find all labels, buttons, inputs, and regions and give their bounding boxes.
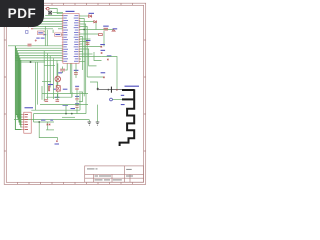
supply node VCC1 [112,28,117,31]
wire mid rails [14,86,98,140]
ground GND2 [96,122,100,125]
capacitor C1 [28,39,37,45]
wire top-left to IC [31,9,63,35]
ground GND1 [88,122,92,125]
capacitor C10 crosses [47,124,51,126]
junction mid node B [38,121,40,123]
component P1 pad [101,50,106,54]
LED D1 [89,13,95,18]
net label N1 [63,105,69,106]
component box B3 [55,33,62,37]
wire mid vertical drops from bus [20,51,72,110]
wire capacitor column links [77,90,83,114]
capacitor C2 [74,63,79,78]
resistor R9 bottom [55,141,60,145]
capacitor C3 [75,86,79,90]
capacitor C11 [75,96,79,100]
battery BT1 long plate [110,87,112,93]
resistor R1 [28,25,31,27]
net label row NL1 [36,38,44,39]
net label PB1 [43,34,46,35]
motor M1 terminal circle [110,98,113,101]
capacitor C9 below IC [58,63,67,76]
wire bus drop band to connector J3 [15,46,21,130]
capacitor C7 [45,100,49,102]
crystal X1 bowtie [48,11,51,14]
diode D2 [94,20,97,23]
capacitor C5 [100,44,105,48]
U1 right pin name column [74,15,79,62]
battery BT1 plus terminal [97,88,99,90]
net label GND row [41,120,53,121]
wire IC right fan [79,16,113,96]
resistor R6 [99,34,103,36]
component box B1 [26,29,34,34]
junction mid node C [71,113,73,115]
battery BT1 top lead [99,89,122,91]
title block [85,166,144,182]
capacitor C8 [55,97,60,102]
motor M2 circle [55,72,62,81]
resistor R7 [107,55,112,60]
wire left bus horizontals [8,46,63,61]
net label N2 [71,108,76,109]
PDF badge overlay [0,0,44,27]
resistor R5 [103,26,109,30]
capacitor C12 [75,103,79,107]
junction bus node [30,61,32,63]
wire cluster verticals [45,26,53,45]
battery BT1 label [125,86,140,87]
transistor Q2 below motor [54,82,68,97]
capacitor C6 [101,72,106,78]
battery BT1 label M [121,95,124,96]
junction mid node A [65,113,67,115]
component box B2 [38,31,44,35]
wire battery feed [90,52,122,99]
schematic frame drawn (unlabeled decorative) [4,3,146,184]
U1 left pin name column [63,15,68,62]
connector J3 [22,107,34,133]
battery BT1 tick [107,89,109,91]
capacitor C4 [86,40,91,44]
IC U1 microcontroller [63,11,79,64]
transistor Q1 [48,84,53,91]
U1 pin stubs [62,16,80,62]
junction right fan node [83,29,85,31]
battery BT1 body [120,89,135,146]
battery BT1 label P [121,104,125,105]
pushbutton S1 circle [45,7,49,10]
junction battery node [116,89,118,91]
